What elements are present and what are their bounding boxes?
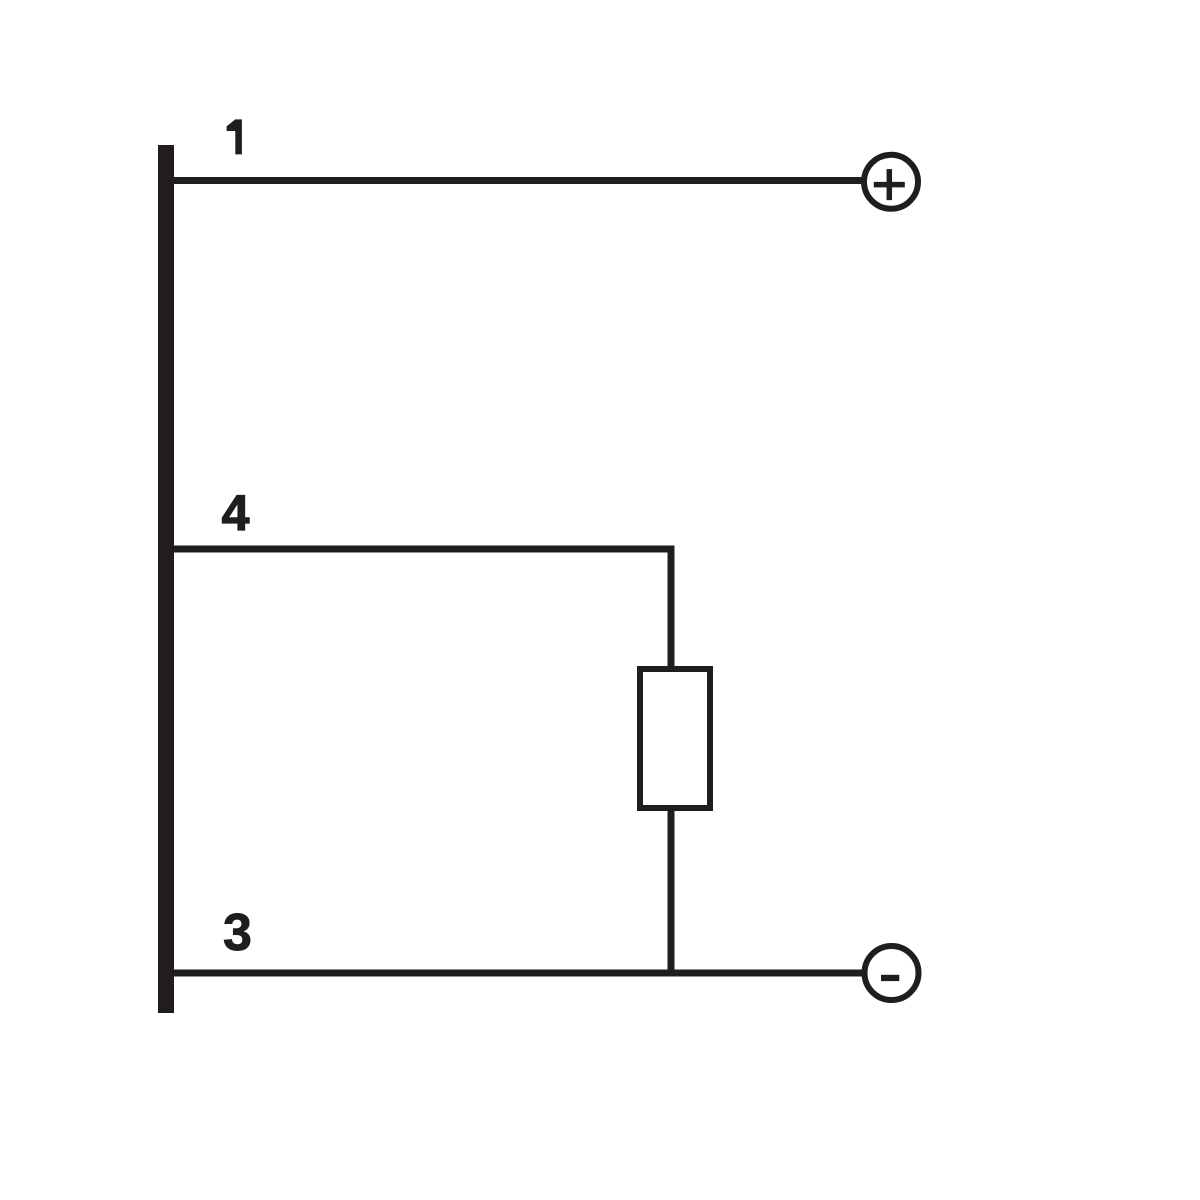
wire node 4 vertical segment to resistor <box>668 546 675 667</box>
wire node 4 horizontal segment <box>174 546 675 553</box>
minus sign of terminal - <box>881 975 899 981</box>
node 1 label <box>227 119 242 154</box>
busbar (thick vertical bus bar) <box>158 145 174 1013</box>
wire resistor to node 3 <box>668 808 675 973</box>
resistor R1 <box>640 669 710 808</box>
svg-text:3: 3 <box>223 904 252 962</box>
terminal - (circle) <box>865 946 919 1000</box>
terminal + (circle) <box>864 155 918 209</box>
wire node 3 to terminal - <box>174 970 865 977</box>
wire node 1 to terminal + <box>174 177 865 184</box>
svg-text:4: 4 <box>222 485 250 541</box>
plus sign of terminal + <box>874 169 905 200</box>
